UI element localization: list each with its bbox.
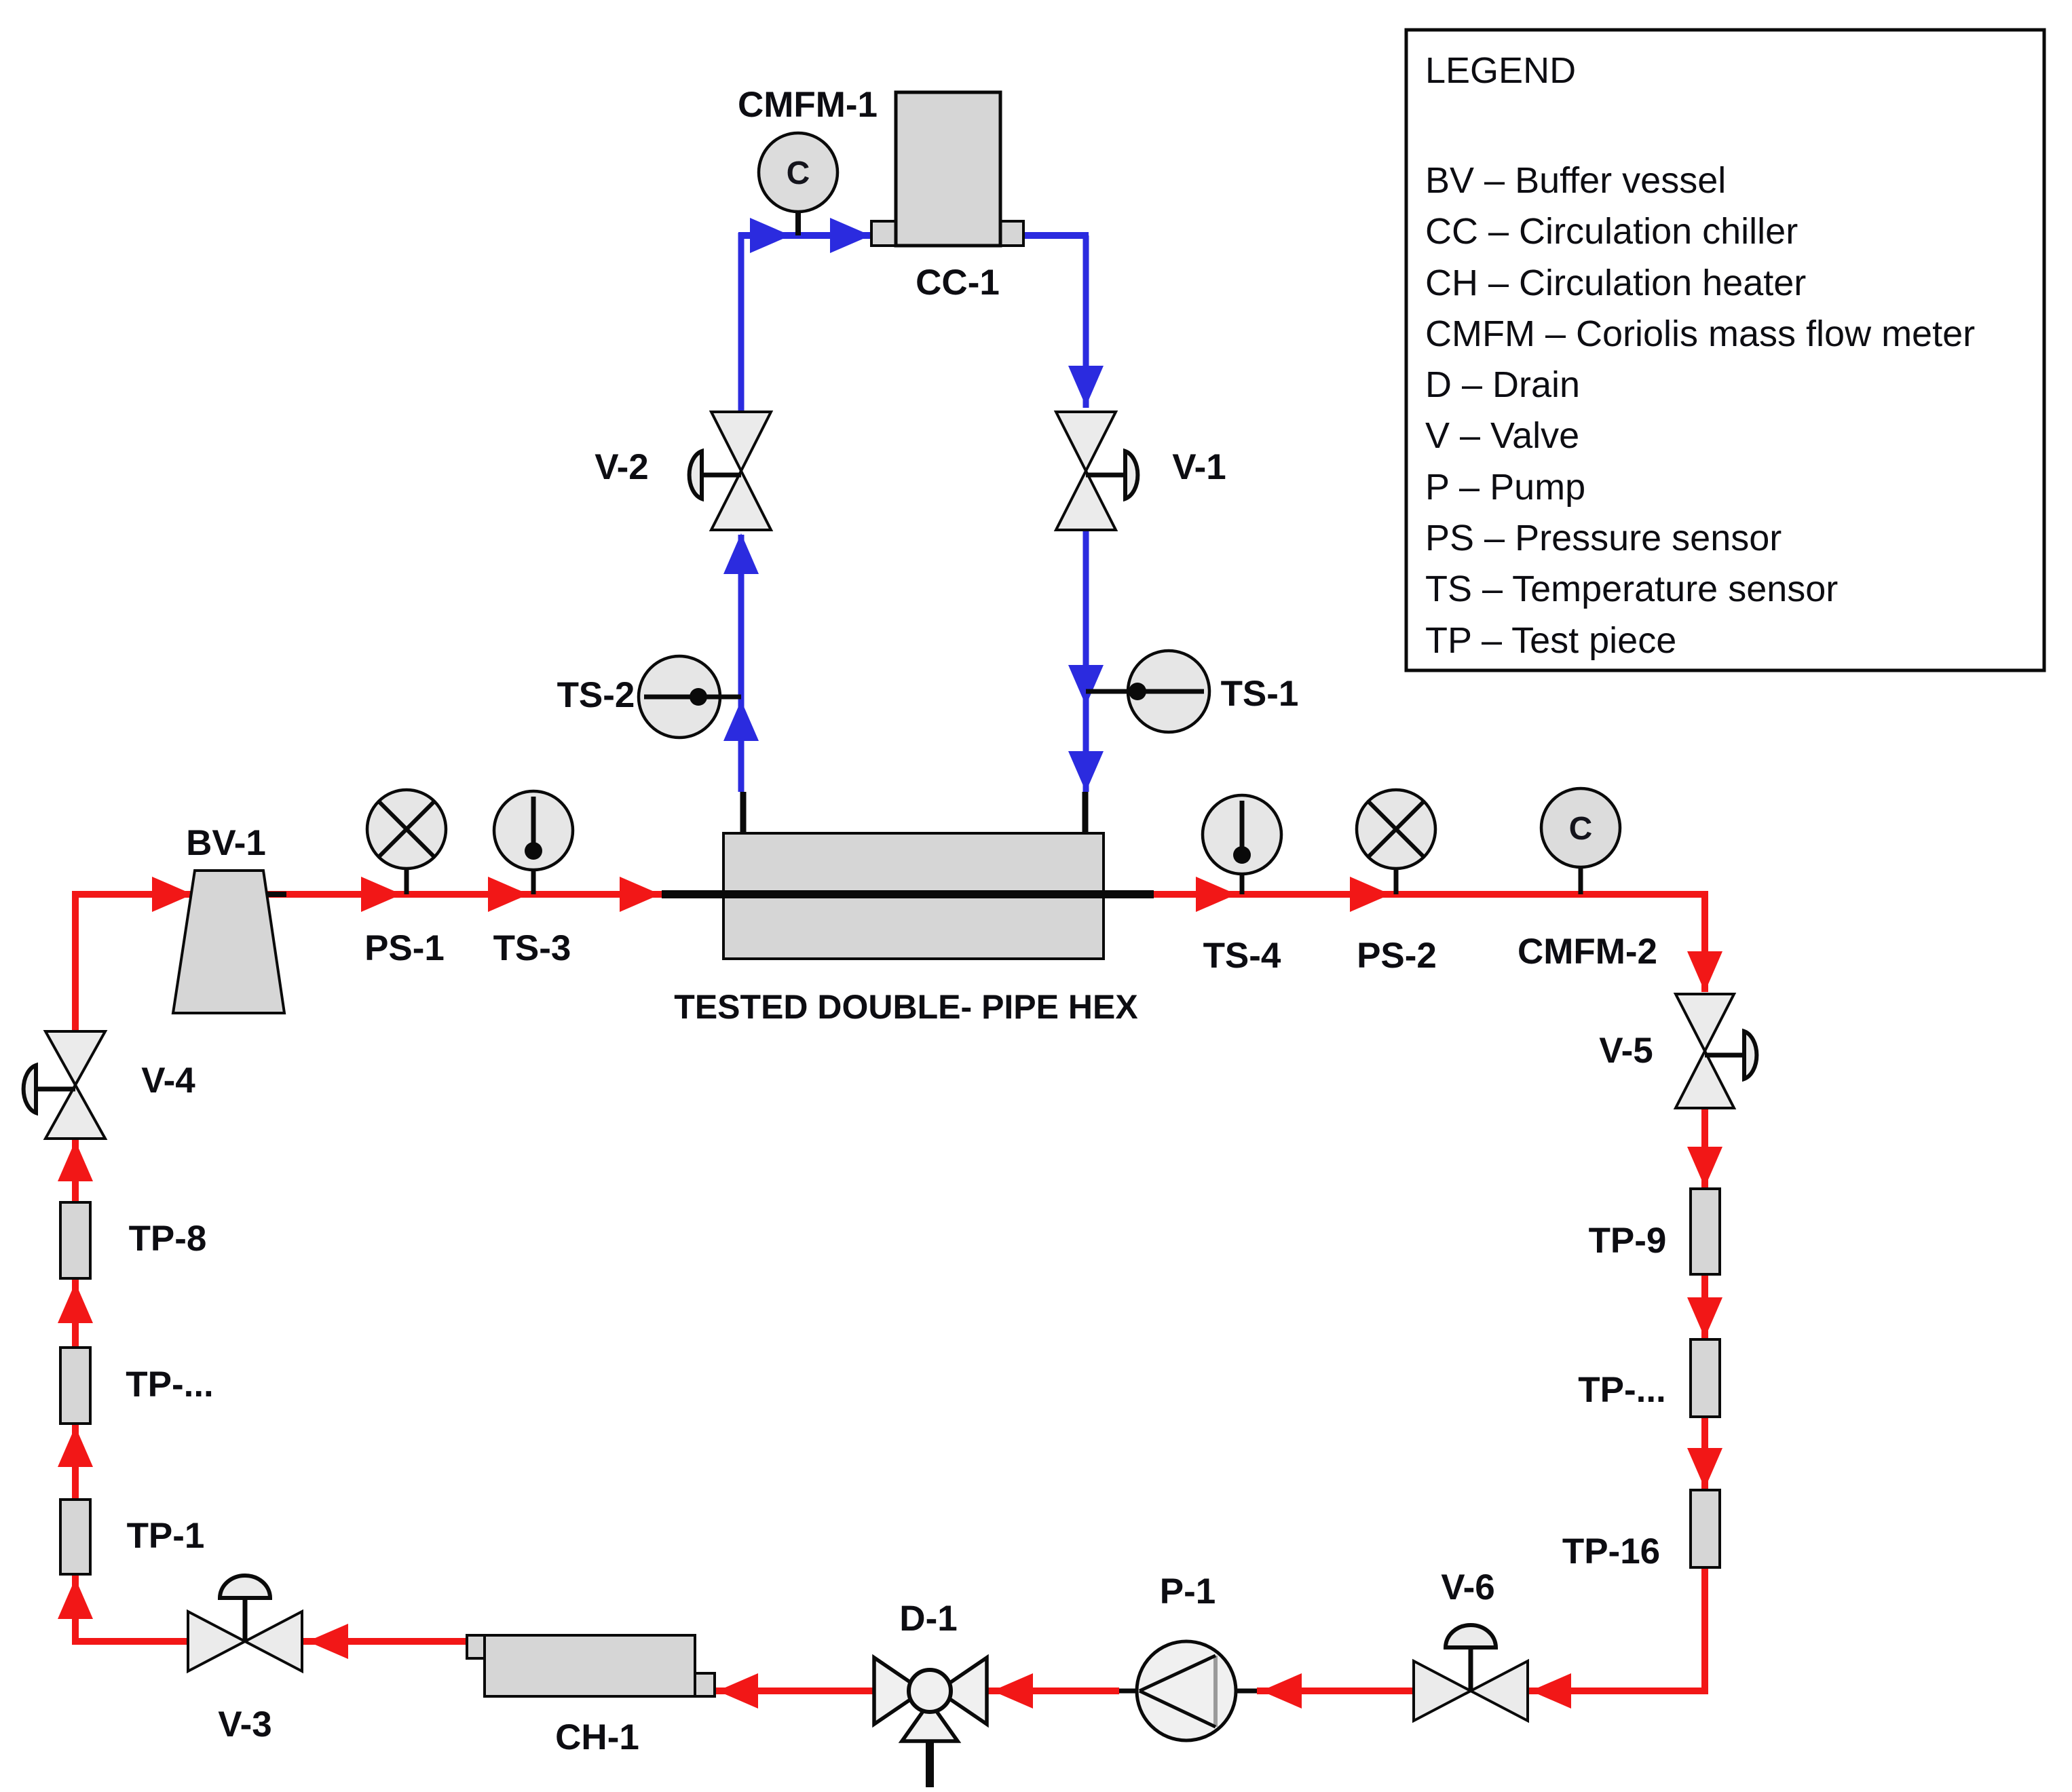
arrow red up to V-4: [58, 1141, 93, 1181]
temperature sensor TS-1: [1086, 689, 1128, 694]
wire red TP-dots to TP-8 left: [72, 1278, 79, 1348]
wire blue top horizontal to CC-1: [738, 232, 873, 239]
wire red V-6 to P-1: [1257, 1688, 1415, 1694]
wire red TP-16 to bottom corner: [1701, 1567, 1708, 1694]
arrow red before HEX: [620, 877, 660, 912]
wire red right column down to V-5: [1701, 894, 1708, 992]
wire black stub P-1 left: [1119, 1689, 1158, 1694]
arrow blue right into CC-1: [830, 218, 871, 253]
arrow blue down to HEX stub: [1068, 751, 1104, 792]
test piece TP-dots right: [1691, 1339, 1720, 1417]
valve V-3: [188, 1612, 245, 1671]
coriolis mass flow meter CMFM-2: [1579, 867, 1583, 894]
arrow blue up to V-2: [723, 533, 759, 574]
svg-text:D-1: D-1: [899, 1599, 957, 1639]
wire red D-1 to CH-1: [713, 1688, 874, 1694]
svg-text:TP-9: TP-9: [1589, 1221, 1667, 1261]
svg-text:TS-2: TS-2: [557, 675, 635, 715]
svg-text:C: C: [1569, 811, 1593, 847]
wire blue CC-1 to right corner: [1022, 232, 1089, 239]
svg-text:V-6: V-6: [1441, 1567, 1495, 1607]
arrow red V-5 to TP-9: [1687, 1147, 1722, 1187]
heat exchanger TESTED DOUBLE-PIPE HEX: [723, 833, 1104, 959]
svg-text:TS-1: TS-1: [1221, 674, 1299, 714]
wire red V-4 up to top corner: [72, 891, 79, 1031]
wire red main line HEX to corner: [1154, 891, 1708, 898]
arrow red before PS-1: [361, 877, 402, 912]
arrow red into D-1: [992, 1673, 1033, 1709]
svg-text:CMFM-2: CMFM-2: [1518, 932, 1657, 972]
arrow red before PS-2: [1350, 877, 1391, 912]
valve V-6: [1414, 1661, 1471, 1721]
temperature sensor TS-4: [1240, 874, 1245, 894]
wire red bottom line corner to V-6: [1528, 1688, 1708, 1694]
arrow red up to TP-1: [58, 1578, 93, 1619]
test piece TP-dots left: [60, 1348, 90, 1424]
svg-text:C: C: [787, 155, 810, 191]
svg-text:TP-8: TP-8: [129, 1219, 207, 1259]
wire red left column corner up to TP-1: [72, 1574, 79, 1645]
wire red top corner to BV-1: [72, 891, 191, 898]
svg-text:BV – Buffer vessel: BV – Buffer vessel: [1425, 160, 1726, 201]
pump P-1: [1137, 1641, 1236, 1740]
arrow red TP-dots to TP-16: [1687, 1448, 1722, 1489]
arrow blue down to V-1: [1068, 366, 1104, 406]
svg-text:CH – Circulation heater: CH – Circulation heater: [1425, 263, 1806, 303]
wire red CH-1 to V-3: [303, 1638, 468, 1645]
arrow red before TS-4: [1196, 877, 1237, 912]
buffer vessel BV-1: [173, 871, 284, 1013]
svg-text:LEGEND: LEGEND: [1425, 50, 1576, 91]
svg-text:TS-3: TS-3: [493, 928, 571, 968]
test piece TP-9: [1691, 1189, 1720, 1274]
arrow red into BV-1: [152, 877, 193, 912]
wire blue left vertical HEX to V-2: [738, 535, 745, 792]
svg-text:D – Drain: D – Drain: [1425, 364, 1580, 405]
arrow red TP-9 to TP-dots: [1687, 1297, 1722, 1338]
wire black line through HEX: [662, 890, 1154, 898]
wire red TP-9 to TP-dots: [1701, 1274, 1708, 1339]
arrow red down to V-5: [1687, 951, 1722, 992]
arrow red into V-3: [307, 1624, 348, 1659]
svg-text:PS-1: PS-1: [364, 928, 445, 968]
circulation chiller CC-1: [871, 221, 896, 246]
valve V-1: [1056, 412, 1116, 471]
svg-text:BV-1: BV-1: [186, 823, 266, 863]
svg-text:V – Valve: V – Valve: [1425, 415, 1579, 456]
svg-text:TS – Temperature sensor: TS – Temperature sensor: [1425, 569, 1838, 609]
svg-text:TP-...: TP-...: [126, 1365, 214, 1405]
arrow red before TS-3: [488, 877, 529, 912]
wire black stub HEX top right: [1082, 792, 1089, 841]
wire blue V-1 down to HEX: [1083, 527, 1089, 792]
wire red TP-dots to TP-16: [1701, 1417, 1708, 1490]
svg-text:PS-2: PS-2: [1357, 936, 1437, 976]
arrow red up to TP-dots left: [58, 1426, 93, 1467]
arrow red into P-1: [1261, 1673, 1302, 1709]
wire red main line BV-1 to HEX: [72, 891, 662, 898]
valve V-5: [1676, 994, 1734, 1051]
wire black stub HEX top left: [740, 792, 747, 841]
wire red V-5 to TP-9: [1701, 1107, 1708, 1189]
wire black stub P-1 right: [1215, 1689, 1257, 1694]
svg-text:TP-...: TP-...: [1578, 1370, 1666, 1410]
drain valve D-1: [874, 1658, 923, 1724]
test piece TP-8: [60, 1202, 90, 1278]
coriolis mass flow meter CMFM-1: [795, 212, 801, 235]
svg-text:CC-1: CC-1: [916, 263, 1000, 303]
svg-text:CC – Circulation chiller: CC – Circulation chiller: [1425, 211, 1798, 252]
svg-text:CMFM – Coriolis mass flow mete: CMFM – Coriolis mass flow meter: [1425, 313, 1975, 354]
arrow blue right to CMFM-1: [750, 218, 791, 253]
wire red TP-8 to V-4: [72, 1139, 79, 1202]
svg-text:PS – Pressure sensor: PS – Pressure sensor: [1425, 518, 1782, 558]
svg-text:V-5: V-5: [1599, 1031, 1653, 1071]
svg-text:V-3: V-3: [218, 1704, 272, 1745]
arrow blue down past TS-1: [1068, 665, 1104, 706]
svg-text:V-1: V-1: [1172, 447, 1226, 487]
pressure sensor PS-2: [1394, 869, 1399, 894]
arrow red up to TP-8: [58, 1282, 93, 1323]
wire red TP-1 to TP-dots left: [72, 1424, 79, 1500]
arrow red into CH-1: [717, 1673, 758, 1709]
svg-text:TP-1: TP-1: [127, 1516, 205, 1556]
wire red V-3 to left corner: [72, 1638, 189, 1645]
arrow blue up to TS-2 junction: [723, 700, 759, 741]
pressure sensor PS-1: [404, 869, 409, 894]
test piece TP-1: [60, 1500, 90, 1574]
svg-text:TESTED DOUBLE- PIPE HEX: TESTED DOUBLE- PIPE HEX: [674, 988, 1137, 1026]
arrow red into V-6: [1530, 1673, 1571, 1709]
test piece TP-16: [1691, 1490, 1720, 1567]
svg-text:TP – Test piece: TP – Test piece: [1425, 620, 1676, 661]
svg-text:CMFM-1: CMFM-1: [738, 85, 878, 125]
svg-text:V-4: V-4: [141, 1061, 195, 1101]
valve V-4: [45, 1031, 105, 1085]
svg-text:P – Pump: P – Pump: [1425, 467, 1585, 508]
wire blue right vertical corner to V-1: [1083, 235, 1089, 408]
svg-text:V-2: V-2: [595, 447, 649, 487]
wire black stub BV-1 outlet: [259, 892, 286, 897]
svg-text:TS-4: TS-4: [1203, 936, 1281, 976]
svg-text:TP-16: TP-16: [1562, 1531, 1660, 1571]
svg-text:P-1: P-1: [1160, 1571, 1216, 1612]
valve V-2: [711, 412, 771, 471]
circulation heater CH-1: [467, 1635, 485, 1658]
temperature sensor TS-3: [531, 870, 536, 894]
legend box: [1406, 30, 2044, 670]
wire red P-1 to D-1: [988, 1688, 1119, 1694]
svg-text:CH-1: CH-1: [555, 1717, 639, 1757]
temperature sensor TS-2: [644, 695, 741, 700]
